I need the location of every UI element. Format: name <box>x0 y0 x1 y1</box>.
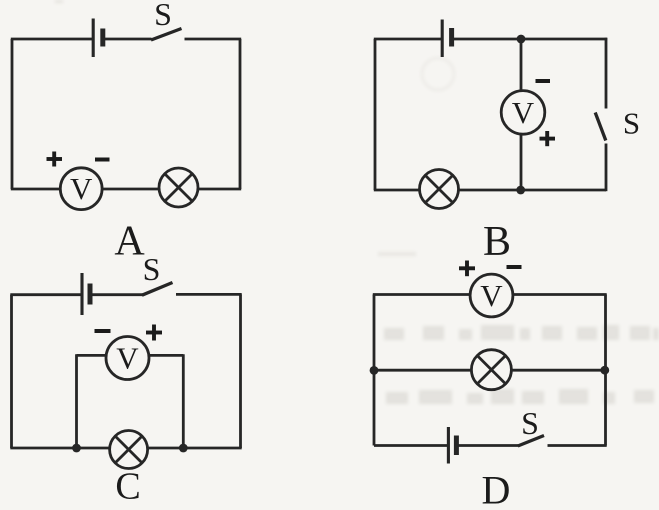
node: junction dot D right <box>600 366 609 375</box>
switch S (D): open blade <box>518 436 544 447</box>
svg-text:B: B <box>483 219 511 265</box>
wire B bottom side <box>374 189 606 192</box>
voltmeter C minus terminal label <box>95 329 111 333</box>
wire C top-middle segment (battery to switch pivot) <box>90 293 142 296</box>
lamp B: cross <box>425 175 453 203</box>
wire A top-left segment <box>11 38 92 41</box>
svg-text:A: A <box>114 219 145 265</box>
lamp C: cross <box>115 436 142 463</box>
wire C right side <box>239 294 242 448</box>
svg-text:V: V <box>480 278 503 313</box>
wire C bottom side <box>10 447 241 450</box>
wire A bottom side <box>11 188 241 191</box>
battery A: long positive plate <box>92 19 95 58</box>
svg-text:S: S <box>154 0 172 32</box>
voltmeter V (A): body circle <box>60 168 102 210</box>
node: bottom junction dot B <box>516 186 525 195</box>
voltmeter B minus terminal label <box>536 79 551 83</box>
wire D middle branch (horizontal through lamp) <box>374 369 606 372</box>
svg-text:V: V <box>116 340 139 375</box>
wire B top-right segment <box>452 38 607 41</box>
voltmeter B plus terminal label <box>540 131 556 146</box>
wire A left side <box>11 39 14 189</box>
wire C: voltmeter branch top horizontal <box>77 354 184 357</box>
battery A: short thick negative plate <box>100 29 105 47</box>
lamp D: cross <box>477 356 505 384</box>
switch S (A): open blade <box>151 29 182 41</box>
wire B middle branch (vertical through voltmeter) <box>520 39 523 190</box>
wire B left side <box>374 39 377 190</box>
wire A top-right segment (switch contact to corner) <box>185 38 242 41</box>
node: junction dot D left <box>370 366 379 375</box>
voltmeter D plus terminal label <box>459 261 475 277</box>
svg-text:S: S <box>521 405 539 441</box>
wire D bottom-middle segment (battery to switch pivot) <box>457 444 519 447</box>
svg-text:V: V <box>512 95 535 130</box>
battery D: long positive plate <box>447 427 450 464</box>
battery C: long positive plate <box>80 273 83 315</box>
node: top junction dot B <box>517 35 526 44</box>
svg-text:V: V <box>70 171 93 206</box>
switch S (B): open blade <box>595 113 606 141</box>
wire C top-right segment <box>176 293 242 296</box>
wire B right-top segment (to switch) <box>605 38 608 109</box>
wire D right side <box>604 295 607 446</box>
battery B: short thick negative plate <box>449 28 454 47</box>
wire D bottom-left segment <box>374 444 447 447</box>
lamp B: body circle <box>420 170 459 209</box>
voltmeter A plus terminal label <box>47 152 63 167</box>
voltmeter A minus terminal label <box>95 158 110 162</box>
node: junction dot C left <box>72 444 81 453</box>
switch S (C): open blade <box>142 283 173 296</box>
wire D top side <box>373 293 607 296</box>
lamp A: body circle <box>159 168 198 207</box>
voltmeter D minus terminal label <box>507 265 522 269</box>
wire A right side <box>239 39 242 189</box>
voltmeter C plus terminal label <box>146 325 162 341</box>
wire B top-left segment <box>374 38 441 41</box>
battery B: long positive plate <box>441 20 444 58</box>
battery D: short thick negative plate <box>454 436 459 456</box>
wire C: voltmeter branch left vertical <box>75 354 78 448</box>
wire A top-middle segment (battery to switch pivot) <box>103 38 152 41</box>
lamp A: cross <box>165 174 193 202</box>
voltmeter V (D): body circle <box>470 274 513 317</box>
wire D left side <box>373 295 376 446</box>
node: junction dot C right <box>179 444 188 453</box>
lamp C: body circle <box>110 431 148 469</box>
svg-text:C: C <box>115 466 140 508</box>
wire C left side <box>10 295 13 448</box>
wire C: voltmeter branch right vertical <box>182 354 185 448</box>
svg-text:S: S <box>143 251 161 287</box>
svg-text:S: S <box>623 106 640 141</box>
voltmeter V (B): body circle <box>501 91 545 135</box>
wire B right-bottom segment (switch to corner) <box>605 144 608 192</box>
wire D bottom-right segment (switch contact to corner) <box>548 444 607 447</box>
svg-text:D: D <box>482 468 511 510</box>
voltmeter V (C): body circle <box>106 337 149 380</box>
lamp D: body circle <box>471 350 511 390</box>
battery C: short thick negative plate <box>88 284 93 305</box>
wire C top-left segment <box>10 293 81 296</box>
